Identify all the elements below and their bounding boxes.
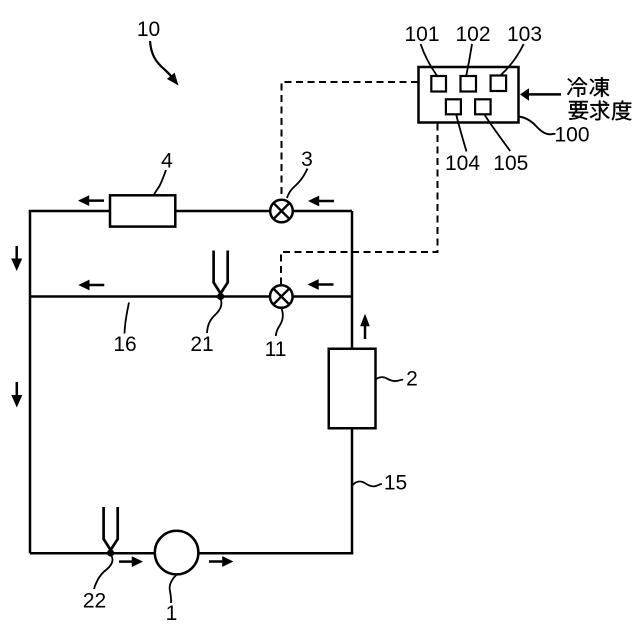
svg-text:105: 105 [493,152,528,175]
flow arrow right of valve 3 [317,200,334,203]
control line (dashed) box 100 to valve 3 [282,82,419,198]
flow arrow down left lower [16,382,19,397]
leader 100 [519,117,556,135]
svg-text:10: 10 [137,18,160,41]
leader 105 [484,115,510,152]
leader 101 [421,44,437,76]
svg-text:100: 100 [554,124,589,147]
svg-text:4: 4 [161,150,173,173]
flow arrow after nozzle 22 [119,560,134,563]
wire bottom horizontal [30,552,353,555]
junction dot at nozzle 22 [107,549,114,556]
svg-text:22: 22 [83,590,106,613]
control line (dashed) box 100 to valve 11 [281,124,438,285]
sensor input square 103 [491,76,507,92]
leader 16 [125,303,130,334]
flow arrow up into evaporator 2 [364,324,367,339]
svg-text:104: 104 [445,152,480,175]
svg-text:1: 1 [166,602,178,625]
leader 15 [352,481,382,486]
leader 104 [456,115,466,152]
pump 1 [155,531,199,575]
controller box 100 [419,67,519,123]
flow arrow right of valve 11 [317,283,334,286]
output square 105 [475,99,491,114]
leader 22 [94,556,113,589]
svg-text:3: 3 [301,148,313,171]
leader 21 [207,300,221,334]
svg-text:102: 102 [455,23,490,46]
svg-text:103: 103 [507,23,542,46]
output square 104 [446,99,461,114]
leader 11 [276,309,283,337]
input arrow into controller 100 [527,93,561,96]
evaporator 2 [329,349,376,429]
svg-text:11: 11 [265,338,287,361]
wire middle horizontal 16 [30,295,352,298]
flow arrow left of heat exchanger 4 [87,199,104,202]
svg-text:2: 2 [406,368,418,391]
flow arrow on line 16 [88,284,105,287]
leader 3 [287,169,308,199]
sensor input square 102 [461,76,477,92]
sensor input square 101 [431,76,446,92]
wire left vertical [29,211,32,553]
svg-text:21: 21 [190,333,213,356]
leader 102 [466,44,472,76]
wire top horizontal [29,210,352,213]
wire right vertical 15 [351,211,354,553]
flow arrow down left upper [15,246,18,261]
nozzle 21 [214,251,228,294]
leader 2 [376,377,404,381]
nozzle 22 [104,507,118,550]
svg-text:101: 101 [404,23,439,46]
junction dot at nozzle 21 [217,293,224,300]
heat exchanger 4 [110,195,175,226]
svg-text:15: 15 [384,472,407,495]
valve 3 [270,200,293,223]
leader 4 [154,170,166,195]
svg-text:16: 16 [113,333,136,356]
flow arrow after pump 1 [209,560,224,563]
leader 103 [500,44,523,76]
leader 1 [170,575,177,604]
leader arrow for label 10 [150,41,175,81]
valve 11 [270,285,293,308]
text 冷凍要求度 (vectorized) [567,77,587,97]
